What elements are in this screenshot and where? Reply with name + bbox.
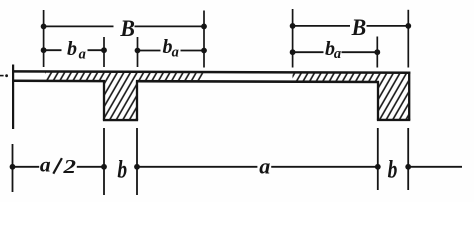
bottom extension line x=104: [103, 128, 105, 195]
dot at (408.2,166.8): [405, 164, 411, 170]
bottom dimension segment a right part: [271, 166, 378, 168]
axis dot at left: [5, 74, 8, 77]
dimension line b_a (right), left segment: [293, 51, 324, 53]
rib 1 left side: [103, 80, 105, 120]
hatched effective flange + rib (left T-beam): [45, 72, 204, 119]
svg-text:a: a: [40, 153, 51, 177]
dimension line b_a (mid), right segment: [181, 50, 205, 52]
dot at (292.6,25.9): [290, 23, 296, 29]
axis dash at left: [0, 75, 4, 77]
extension tick x=408.3 (right end of B2): [407, 10, 409, 68]
extension tick x=204 (right end of B1): [203, 11, 205, 68]
svg-text:2: 2: [62, 156, 76, 178]
dot at (377.3,52.2): [374, 49, 380, 55]
dot at (104,50.2): [101, 47, 107, 53]
extension tick x=377.3 (rib2 left face): [376, 37, 378, 68]
bottom dimension segment a left part: [137, 166, 257, 168]
dimension line B (right), left segment: [293, 25, 350, 27]
dot at (408.3,25.9): [405, 23, 411, 29]
slab bottom edge (left of rib 1): [12, 80, 105, 83]
extension tick x=43.6 (left end of B1 and ba1): [43, 10, 45, 67]
dimension line B (right), right segment: [367, 25, 409, 27]
bottom extension line x=408.2: [407, 128, 409, 190]
rib 2 bottom: [377, 119, 410, 121]
bottom extension line x=12.5: [12, 144, 14, 192]
dimension line B (left), left segment: [44, 25, 114, 27]
dot at (204,50.5): [201, 48, 207, 54]
svg-text:b: b: [67, 38, 77, 60]
svg-text:a: a: [79, 46, 86, 62]
left cut edge of slab: [12, 65, 14, 130]
rib 1 bottom: [103, 119, 138, 121]
dot at (292.6,52.2): [290, 49, 296, 55]
bottom extension line x=377.8: [377, 128, 379, 190]
bottom dimension segment a/2 right part: [77, 166, 104, 168]
extension tick x=137.5 (rib1 right face): [137, 37, 139, 67]
bottom dimension segment rightmost: [408, 166, 462, 168]
rib 2 left side: [377, 81, 379, 120]
bottom extension line x=137: [136, 128, 138, 195]
svg-text:a: a: [334, 46, 341, 62]
slab bottom edge (between ribs): [136, 80, 379, 83]
svg-text:b: b: [117, 155, 127, 183]
right edge of slab and rib 2: [408, 72, 410, 120]
dimension line B (left), right segment: [135, 25, 205, 27]
dot at (43.6,26.4): [41, 24, 47, 30]
dot at (377.8,166.8): [375, 164, 381, 170]
dimension line b_a (mid), left segment: [138, 50, 161, 52]
dimension line b_a (right), right segment: [342, 51, 378, 53]
dot at (43.6,50.2): [41, 47, 47, 53]
dot at (137.5,50.5): [135, 48, 141, 54]
dimension line b_a (left), left segment: [44, 49, 62, 51]
dot at (104,166.8): [101, 164, 107, 170]
slab top edge: [12, 71, 410, 72]
dot at (12.5,166.8): [10, 164, 16, 170]
svg-text:B: B: [351, 15, 367, 41]
bottom dimension segment a/2 left part: [13, 166, 40, 168]
svg-text:a: a: [172, 45, 179, 61]
dot at (137,166.8): [134, 164, 140, 170]
svg-text:a: a: [259, 154, 270, 179]
svg-text:B: B: [119, 15, 135, 41]
rib 1 right side: [136, 80, 138, 120]
dot at (204,26.4): [201, 24, 207, 30]
dimension line b_a (left), right segment: [88, 49, 105, 51]
extension tick x=292.6 (left end of B2): [292, 9, 294, 68]
hatched effective flange + rib (right L-beam): [293, 73, 409, 119]
svg-text:b: b: [388, 155, 398, 183]
extension tick x=104 (rib1 left face): [103, 37, 105, 67]
